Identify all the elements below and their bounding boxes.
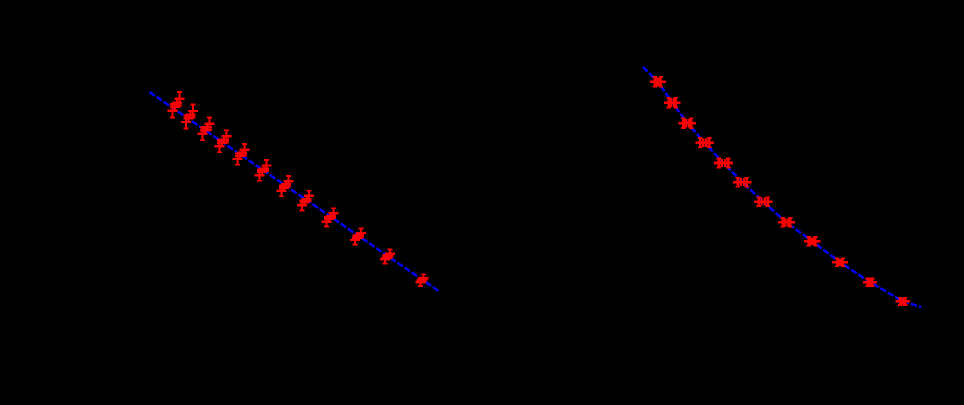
data cluster L3 left panel (4 points with error bars): [198, 117, 215, 140]
data cluster R2 right panel (4 points with error bars): [664, 98, 681, 108]
data cluster L9 left panel (4 points with error bars): [322, 208, 339, 226]
data cluster L10 left panel (4 points with error bars): [350, 228, 366, 244]
data cluster R8 right panel (4 points with error bars): [778, 218, 795, 227]
data cluster R6 right panel (4 points with error bars): [733, 178, 752, 187]
data cluster L6 left panel (4 points with error bars): [255, 160, 272, 181]
data cluster L12 left panel (4 points with error bars): [415, 274, 428, 286]
data cluster R10 right panel (4 points with error bars): [832, 258, 848, 266]
data cluster R11 right panel (4 points with error bars): [863, 278, 877, 286]
data cluster L1 left panel (4 points with error bars): [168, 92, 185, 117]
data cluster R4 right panel (4 points with error bars): [696, 138, 714, 147]
data cluster R3 right panel (4 points with error bars): [679, 118, 697, 128]
data cluster R7 right panel (4 points with error bars): [754, 197, 773, 206]
data cluster R12 right panel (4 points with error bars): [895, 298, 910, 305]
fit line left panel (blue dashed power-law fit): [150, 92, 440, 292]
data cluster L5 left panel (4 points with error bars): [233, 144, 250, 165]
fit line right panel (blue dashed fit curve): [643, 67, 921, 307]
data cluster L4 left panel (4 points with error bars): [215, 130, 232, 152]
data cluster R1 right panel (4 points with error bars): [650, 77, 666, 87]
data cluster L8 left panel (4 points with error bars): [297, 191, 314, 211]
data cluster L2 left panel (4 points with error bars): [181, 105, 198, 129]
data cluster R5 right panel (4 points with error bars): [714, 158, 733, 167]
data cluster R9 right panel (4 points with error bars): [804, 237, 820, 245]
data cluster L11 left panel (4 points with error bars): [380, 250, 395, 264]
data cluster L7 left panel (4 points with error bars): [277, 176, 294, 196]
